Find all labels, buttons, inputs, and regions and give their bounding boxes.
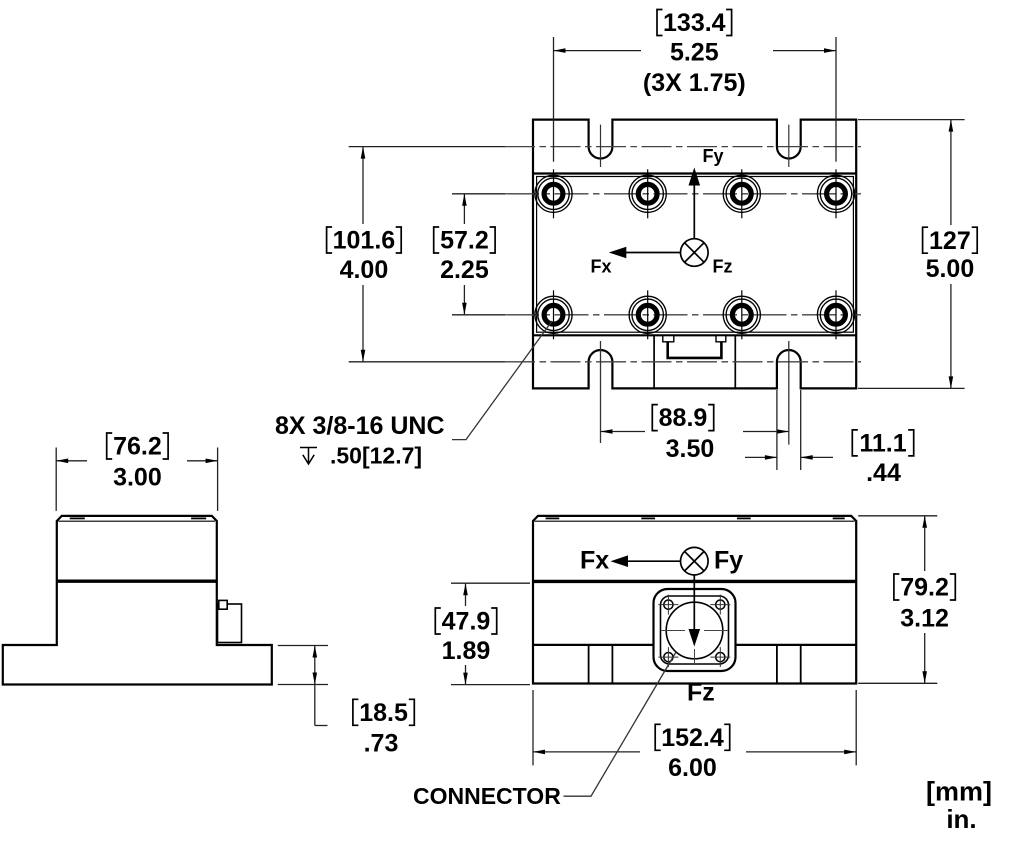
svg-text:57.2: 57.2 — [440, 227, 489, 255]
svg-text:88.9: 88.9 — [659, 404, 708, 432]
dim 47.9/1.89 dimension line — [465, 583, 467, 606]
top slot crosshair right — [788, 125, 790, 167]
dim 133.4/5.25 extension lines — [553, 37, 555, 162]
connector boss U outline — [668, 342, 722, 358]
dim 127/5.00 dimension line — [950, 120, 952, 225]
dim 76.2/3.00 dimension line — [56, 460, 87, 462]
svg-text:8X 3/8-16 UNC: 8X 3/8-16 UNC — [275, 412, 445, 440]
top slot crosshair left — [600, 125, 602, 167]
svg-text:CONNECTOR: CONNECTOR — [413, 783, 561, 809]
connector inner flange — [661, 596, 729, 664]
svg-text:133.4: 133.4 — [663, 9, 726, 37]
dim 79.2/3.12 dimension line — [924, 516, 926, 571]
svg-text:.44: .44 — [866, 459, 901, 487]
centerline bottom slots — [505, 361, 861, 363]
dim 152.4/6.00 dimension line — [533, 751, 640, 753]
connector barrel circle — [666, 602, 723, 659]
axis Fx arrow (front view) — [627, 560, 681, 562]
dim 11.1/.44 extension lines — [776, 390, 778, 470]
svg-text:47.9: 47.9 — [442, 608, 491, 636]
svg-text:5.00: 5.00 — [926, 255, 975, 283]
svg-text:(3X 1.75): (3X 1.75) — [643, 69, 746, 97]
leader from thread note to hole — [452, 321, 552, 440]
axis Fy arrow (top view) — [693, 186, 695, 239]
svg-text:152.4: 152.4 — [661, 724, 724, 752]
top view block chamfer inner rect — [537, 177, 854, 333]
svg-text:Fx: Fx — [580, 546, 609, 574]
front view outline — [533, 516, 856, 684]
SIDEVIEW — [3, 433, 415, 758]
dim 79.2/3.12 extension lines — [858, 516, 937, 684]
centerline hole row 2 — [505, 314, 861, 316]
FRONTVIEW — [413, 516, 992, 834]
dim 18.5/.73 extension lines — [278, 646, 328, 726]
svg-text:4.00: 4.00 — [340, 256, 389, 284]
svg-text:Fx: Fx — [591, 257, 612, 277]
top view flange/body outline with mounting slots — [533, 120, 856, 389]
dim 152.4/6.00 extension lines — [533, 690, 856, 765]
dim 18.5/.73 dimension line — [314, 646, 316, 726]
bottom slot crosshair + extension right — [788, 341, 790, 445]
svg-text:3.12: 3.12 — [900, 604, 949, 632]
front view top inner edge — [535, 520, 855, 522]
svg-text:11.1: 11.1 — [859, 430, 906, 458]
svg-text:76.2: 76.2 — [113, 433, 162, 461]
side view connector protrusion — [218, 604, 242, 643]
tapped holes 8X — [535, 169, 855, 339]
side view thick joint line — [57, 580, 217, 583]
svg-text:Fy: Fy — [714, 546, 743, 574]
svg-text:79.2: 79.2 — [900, 574, 949, 602]
svg-text:3.50: 3.50 — [666, 435, 715, 463]
front view top chamfer dashes — [546, 517, 560, 519]
dim 101.6/4.00 extension lines — [349, 146, 505, 148]
axis Fy symbol circle-cross (front view) — [681, 547, 709, 575]
axis Fz arrow (front view) — [693, 575, 695, 630]
side view top inner edge — [59, 520, 216, 522]
connector boss tab left — [663, 336, 674, 342]
axis Fx arrow (top view) — [626, 252, 681, 254]
connector boss tab right — [716, 336, 726, 342]
svg-text:Fz: Fz — [687, 678, 715, 706]
dim 57.2/2.25 extension lines — [452, 193, 505, 195]
svg-text:[mm]: [mm] — [926, 777, 992, 807]
centerline hole row 1 — [505, 193, 861, 195]
dim 76.2/3.00 extension lines — [56, 448, 217, 511]
svg-text:3.00: 3.00 — [113, 464, 162, 492]
CONNECTOR leader line — [564, 652, 677, 796]
svg-text:101.6: 101.6 — [333, 227, 396, 255]
connector centerline vertical below arrow — [694, 649, 696, 664]
svg-text:6.00: 6.00 — [668, 754, 717, 782]
svg-text:.50[12.7]: .50[12.7] — [330, 443, 422, 469]
side view top chamfer dashes — [70, 517, 85, 519]
connector housing hidden edges — [653, 335, 655, 388]
top view block bottom edge — [533, 334, 856, 336]
svg-text:Fy: Fy — [703, 146, 724, 166]
dim 11.1/.44 dimension line — [745, 456, 777, 458]
svg-text:18.5: 18.5 — [359, 699, 408, 727]
svg-text:1.89: 1.89 — [442, 637, 491, 665]
front view flange top edge — [533, 644, 654, 646]
svg-text:127: 127 — [929, 227, 971, 255]
centerline top slots — [505, 146, 861, 148]
connector screws — [664, 600, 725, 662]
top view block top edge — [533, 172, 856, 174]
svg-text:in.: in. — [946, 804, 976, 834]
axis Fz symbol circle-cross (top view) — [681, 239, 709, 267]
dim 88.9/3.50 dimension line — [601, 431, 646, 433]
svg-text:Fz: Fz — [713, 257, 733, 277]
dim 101.6/4.00 dimension line — [362, 147, 364, 224]
connector centerline horizontal — [662, 630, 686, 632]
connector outer body — [654, 589, 736, 671]
dim 133.4/5.25 dimension line — [554, 50, 642, 52]
TOPDIMS — [275, 9, 977, 487]
dim 47.9/1.89 extension lines — [451, 583, 530, 684]
dim 127/5.00 extension lines — [858, 119, 965, 121]
svg-text:5.25: 5.25 — [670, 39, 719, 67]
dim 57.2/2.25 dimension line — [463, 194, 465, 224]
front view thick joint line — [533, 580, 856, 583]
svg-text:.73: .73 — [364, 730, 399, 758]
bottom slot crosshair + extension left — [600, 341, 602, 443]
side view outline (block on flange) — [3, 516, 272, 685]
front view slot edges — [588, 645, 590, 684]
TOPVIEW — [505, 120, 861, 445]
depth symbol — [300, 448, 317, 465]
svg-text:2.25: 2.25 — [440, 256, 489, 284]
